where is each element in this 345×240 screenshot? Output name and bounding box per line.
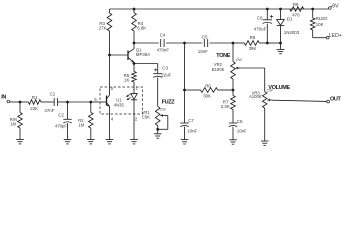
svg-text:4: 4 bbox=[111, 117, 114, 122]
svg-text:C3: C3 bbox=[162, 65, 168, 70]
value C5K bbox=[142, 114, 150, 119]
label C3 bbox=[162, 65, 168, 70]
ground opto LED bbox=[130, 140, 138, 144]
svg-text:TONE: TONE bbox=[216, 53, 230, 59]
label CW VR2 bbox=[236, 58, 243, 62]
svg-text:6.8K: 6.8K bbox=[137, 26, 146, 31]
svg-text:470: 470 bbox=[292, 13, 300, 18]
ground VR3 bbox=[261, 141, 269, 145]
node tone stack input junction bbox=[183, 42, 186, 45]
node D1 bottom bbox=[279, 42, 282, 45]
wire VR3 wiper to OUT bbox=[272, 100, 327, 101]
value B100K bbox=[212, 67, 225, 72]
capacitor C3 bbox=[153, 64, 162, 107]
svg-text:R9: R9 bbox=[293, 2, 299, 7]
svg-text:B100K: B100K bbox=[212, 67, 225, 72]
label R6 bbox=[205, 83, 211, 88]
value 1M R2 bbox=[78, 123, 84, 128]
svg-text:C2: C2 bbox=[58, 112, 64, 117]
label R2 bbox=[78, 118, 84, 123]
svg-text:47nF: 47nF bbox=[44, 108, 54, 113]
label VR2 bbox=[214, 62, 223, 67]
svg-text:30K: 30K bbox=[203, 94, 211, 99]
node VR2 bottom junction bbox=[232, 89, 235, 92]
phototransistor U1 pins 5-4 bbox=[107, 55, 110, 140]
label RIN bbox=[10, 117, 17, 122]
svg-text:MP36A: MP36A bbox=[136, 52, 150, 57]
value 27K bbox=[99, 26, 107, 31]
wiper VR3 bbox=[267, 99, 272, 102]
label C4 bbox=[160, 33, 166, 38]
label R9 bbox=[293, 2, 299, 7]
svg-text:27K: 27K bbox=[99, 26, 107, 31]
label R1 bbox=[32, 95, 38, 100]
capacitor C8 bbox=[229, 123, 237, 140]
svg-text:10nF: 10nF bbox=[187, 128, 197, 133]
label RLED bbox=[316, 16, 328, 21]
capacitor C1 bbox=[54, 98, 67, 106]
wiper VR2 bbox=[236, 67, 241, 70]
diode D1 bbox=[277, 9, 285, 43]
svg-text:470uF: 470uF bbox=[254, 26, 267, 31]
node Q1 emitter junction bbox=[133, 62, 136, 65]
value 1N4003 bbox=[284, 30, 300, 35]
svg-text:CW: CW bbox=[236, 58, 243, 62]
LED U1 pins 1-2 bbox=[131, 93, 137, 139]
ground C7 bbox=[181, 140, 189, 144]
ground opto emitter bbox=[106, 140, 114, 144]
svg-text:RLED: RLED bbox=[316, 16, 328, 21]
node C6 top junction bbox=[266, 8, 269, 11]
capacitor C5 bbox=[185, 39, 233, 47]
svg-text:2: 2 bbox=[135, 117, 138, 122]
node R6 left junction bbox=[183, 89, 186, 92]
value MP36A bbox=[136, 52, 150, 57]
value A100K bbox=[249, 94, 262, 99]
svg-text:22uF: 22uF bbox=[161, 73, 171, 78]
svg-text:5: 5 bbox=[111, 86, 114, 91]
label U1 bbox=[116, 98, 122, 103]
label VR3 bbox=[252, 91, 261, 96]
wire RLED top bbox=[312, 9, 314, 18]
value 10K bbox=[316, 22, 324, 27]
label VR1 bbox=[142, 110, 151, 115]
svg-text:39K: 39K bbox=[249, 46, 257, 51]
svg-text:C5K: C5K bbox=[142, 114, 150, 119]
svg-text:C6: C6 bbox=[257, 15, 263, 20]
label C2 bbox=[58, 112, 64, 117]
value 470nF bbox=[157, 47, 170, 52]
node R2 junction bbox=[89, 101, 92, 104]
node C2 junction bbox=[66, 101, 69, 104]
node input junction bbox=[19, 101, 22, 104]
wire R2 node to opto base bbox=[91, 101, 106, 103]
svg-text:1N4003: 1N4003 bbox=[284, 30, 300, 35]
potentiometer VR3 bbox=[262, 92, 267, 141]
svg-text:R6: R6 bbox=[205, 83, 211, 88]
label R4 bbox=[138, 21, 144, 26]
svg-text:A100K: A100K bbox=[249, 94, 262, 99]
label C1 bbox=[50, 91, 56, 96]
node VR1 bottom junction bbox=[156, 128, 159, 131]
label C8 bbox=[237, 119, 243, 124]
value 1M RIN bbox=[10, 121, 16, 126]
svg-text:C5: C5 bbox=[202, 35, 208, 40]
terminal LED+ bbox=[327, 33, 342, 39]
value 470pF bbox=[55, 123, 67, 128]
label D1 bbox=[287, 17, 293, 22]
svg-text:R1: R1 bbox=[32, 95, 38, 100]
value 3.3K bbox=[221, 104, 230, 109]
potentiometer VR1 bbox=[155, 107, 160, 130]
label pin 6 bbox=[94, 97, 97, 102]
svg-text:LED+: LED+ bbox=[329, 33, 342, 39]
label R3 bbox=[99, 21, 105, 26]
terminal OUT bbox=[327, 97, 342, 103]
value 4N35 bbox=[114, 103, 125, 108]
resistor R1 bbox=[20, 100, 54, 105]
svg-text:C4: C4 bbox=[160, 33, 166, 38]
svg-text:D1: D1 bbox=[287, 17, 293, 22]
label FUZZ bbox=[162, 100, 176, 106]
svg-text:R8: R8 bbox=[250, 35, 256, 40]
svg-text:IN: IN bbox=[1, 94, 6, 100]
LED light arrows bbox=[126, 94, 130, 100]
svg-text:OUT: OUT bbox=[330, 97, 342, 103]
svg-text:6: 6 bbox=[94, 97, 97, 102]
wire RLED to LED+ terminal bbox=[313, 30, 327, 38]
label R5 bbox=[124, 73, 130, 78]
node C6 bottom bbox=[266, 42, 269, 45]
potentiometer VR2 bbox=[231, 43, 236, 90]
svg-text:CW: CW bbox=[267, 89, 274, 93]
resistor RIN bbox=[18, 102, 23, 140]
capacitor C6 bbox=[263, 9, 274, 43]
label pin 5 bbox=[111, 86, 114, 91]
svg-text:4N35: 4N35 bbox=[114, 103, 125, 108]
label R8 bbox=[250, 35, 256, 40]
resistor R9 bbox=[290, 7, 304, 12]
wire VR1 wiper loop bbox=[158, 116, 168, 130]
svg-text:1: 1 bbox=[136, 86, 139, 91]
capacitor C2 bbox=[63, 102, 71, 140]
label pin 1 bbox=[136, 86, 139, 91]
label Q1 bbox=[136, 47, 142, 52]
value 22uF bbox=[161, 73, 171, 78]
resistor R2 bbox=[89, 102, 94, 140]
value 470uF bbox=[254, 26, 267, 31]
wire C2 node to R2 node bbox=[68, 101, 91, 103]
ground VR1 bbox=[154, 129, 162, 138]
value 1K bbox=[124, 77, 129, 82]
node Q1 base bias junction bbox=[108, 54, 111, 57]
ground R2 bbox=[87, 140, 95, 144]
resistor R6 bbox=[185, 88, 234, 93]
terminal 9V bbox=[329, 3, 340, 9]
label pin 2 bbox=[135, 117, 138, 122]
wire VR2 wiper to VR3 bbox=[240, 68, 264, 92]
svg-text:1K: 1K bbox=[124, 77, 129, 82]
svg-text:9V: 9V bbox=[332, 3, 339, 9]
svg-text:470pF: 470pF bbox=[55, 123, 67, 128]
value 22K bbox=[30, 106, 38, 111]
svg-text:10nF: 10nF bbox=[198, 49, 208, 54]
node VR2 top junction bbox=[232, 42, 235, 45]
value 10nF C7 bbox=[187, 128, 197, 133]
svg-text:C1: C1 bbox=[50, 91, 56, 96]
wire emitter to C3 bbox=[134, 63, 158, 65]
label R7 bbox=[223, 100, 229, 105]
value 10nF C8 bbox=[237, 128, 247, 133]
svg-text:10nF: 10nF bbox=[237, 128, 247, 133]
label CW VR3 bbox=[267, 89, 274, 93]
label C6 bbox=[257, 15, 263, 20]
svg-text:C7: C7 bbox=[188, 118, 194, 123]
resistor R8 bbox=[233, 41, 267, 46]
capacitor C4 bbox=[134, 39, 183, 47]
resistor R4 bbox=[132, 9, 137, 43]
label C5 bbox=[202, 35, 208, 40]
wire IN to node bbox=[10, 101, 20, 103]
label CW VR1 bbox=[160, 108, 167, 112]
resistor R7 bbox=[231, 90, 236, 123]
value 6.8K bbox=[137, 26, 146, 31]
label C7 bbox=[188, 118, 194, 123]
svg-text:FUZZ: FUZZ bbox=[162, 100, 176, 106]
svg-text:1M: 1M bbox=[10, 121, 16, 126]
label VOLUME bbox=[268, 85, 290, 91]
value 470 bbox=[292, 13, 300, 18]
resistor RLED bbox=[310, 18, 315, 30]
ground C2 bbox=[64, 140, 72, 144]
svg-text:10K: 10K bbox=[316, 22, 324, 27]
optocoupler U1 dashed box bbox=[100, 87, 143, 114]
ground RIN bbox=[16, 140, 24, 144]
label TONE bbox=[216, 53, 230, 59]
value 10nF bbox=[198, 49, 208, 54]
terminal IN bbox=[1, 94, 9, 102]
svg-text:C8: C8 bbox=[237, 119, 243, 124]
node Q1 collector junction bbox=[133, 42, 136, 45]
ground supply filter bbox=[277, 43, 285, 54]
node R4 top junction bbox=[133, 8, 136, 11]
svg-text:470nF: 470nF bbox=[157, 47, 170, 52]
capacitor C7 bbox=[180, 43, 188, 140]
svg-text:CW: CW bbox=[160, 108, 167, 112]
label pin 4 bbox=[111, 117, 114, 122]
ground C8 bbox=[229, 140, 237, 144]
wire C6 D1 ground bus bbox=[267, 42, 280, 44]
wiper VR1 bbox=[160, 114, 165, 117]
value 47nF bbox=[44, 108, 54, 113]
svg-text:3.3K: 3.3K bbox=[221, 104, 230, 109]
wire 9V supply rail bbox=[110, 8, 329, 10]
transistor Q1 bbox=[110, 43, 135, 64]
svg-text:22K: 22K bbox=[30, 106, 38, 111]
node RLED tap junction bbox=[311, 8, 314, 11]
svg-text:1M: 1M bbox=[78, 123, 84, 128]
value 39K bbox=[249, 46, 257, 51]
value 33K bbox=[203, 94, 211, 99]
resistor R3 bbox=[107, 9, 112, 55]
node D1 top junction bbox=[279, 8, 282, 11]
resistor R5 bbox=[132, 64, 137, 94]
